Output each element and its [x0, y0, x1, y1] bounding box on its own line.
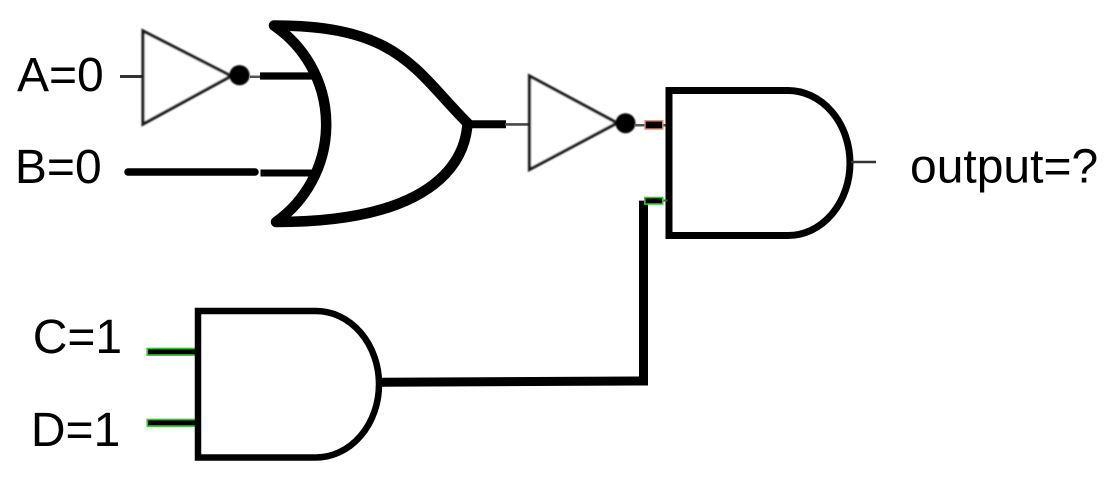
- AND gate G3 (bottom): [198, 311, 379, 458]
- OR gate G1: [274, 26, 468, 223]
- svg-text:A=0: A=0: [17, 49, 104, 102]
- inverter U1 triangle: [143, 31, 231, 124]
- wire gray link green stub to gate edge: [660, 200, 668, 202]
- wire AND G2 output thin: [851, 161, 876, 164]
- wire logic-1 green C input: [147, 349, 198, 356]
- wire logic-1 green D input: [147, 420, 198, 427]
- svg-text:output=?: output=?: [910, 140, 1098, 193]
- inverter U1 bubble: [229, 65, 249, 85]
- wire U1 bubble short gray link: [250, 76, 262, 79]
- wire A input to inverter U1: [120, 75, 144, 78]
- svg-text:C=1: C=1: [33, 311, 122, 364]
- svg-text:D=1: D=1: [31, 404, 120, 457]
- inverter U2 triangle: [530, 76, 618, 170]
- wire OR output thick: [465, 120, 506, 128]
- wire U2 bubble to red stub thin: [634, 124, 667, 127]
- wire logic-0 red segment into AND G2 top input: [645, 121, 663, 129]
- wire B input: [128, 168, 255, 176]
- wire OR gate top input stub: [260, 72, 318, 79]
- wire OR gate bottom input stub: [261, 170, 317, 177]
- wire logic-1 green segment into AND G2 bottom input: [645, 198, 663, 205]
- wire OR output thin to inverter U2: [505, 123, 531, 126]
- inverter U2 bubble: [616, 113, 636, 133]
- wire AND G3 output L-shape up to G2: [378, 201, 644, 383]
- svg-text:B=0: B=0: [15, 141, 102, 194]
- AND gate G2 (top): [669, 91, 850, 236]
